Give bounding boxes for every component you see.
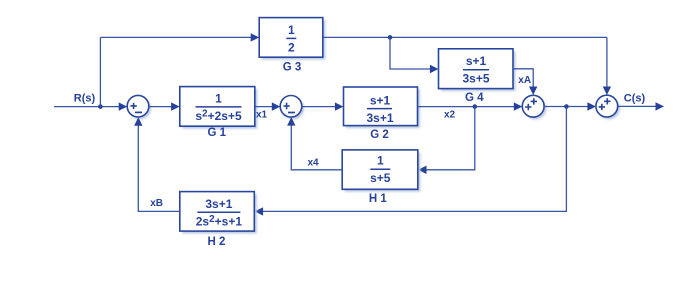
block G2 shadow [346, 90, 420, 129]
svg-text:R(s): R(s) [74, 93, 96, 105]
svg-text:G 4: G 4 [465, 92, 484, 104]
svg-text:s+5: s+5 [370, 171, 391, 185]
arrowhead up into summer S1 [134, 117, 142, 126]
label H 2 [208, 236, 226, 248]
label xB [150, 198, 163, 209]
svg-text:G 2: G 2 [370, 129, 389, 141]
svg-text:2: 2 [288, 40, 295, 54]
svg-text:2s2+s+1: 2s2+s+1 [196, 214, 243, 229]
block G3 [259, 18, 323, 58]
block G4 [439, 49, 514, 89]
svg-text:1: 1 [377, 154, 384, 168]
wire: G3 output along top to far right [323, 36, 607, 38]
label G 1 [208, 127, 227, 139]
svg-text:1: 1 [288, 23, 295, 37]
arrowhead left into H1 [418, 166, 427, 174]
wire: H2 output to S1 bottom [138, 125, 180, 211]
label G 4 [465, 92, 484, 104]
node: top line tap junction [388, 35, 393, 40]
label G 2 [370, 129, 389, 141]
svg-text:s+1: s+1 [370, 94, 391, 108]
arrowhead down into summer S4 [603, 87, 611, 96]
svg-text:G 3: G 3 [283, 62, 302, 74]
summer S4 shadow [598, 98, 620, 120]
arrowhead into G2 [335, 102, 344, 110]
svg-text:x1: x1 [256, 110, 268, 121]
label xA [518, 75, 531, 86]
summer S3 shadow [525, 98, 547, 120]
arrowhead down into summer S3 [529, 87, 537, 96]
summing junction S3 [522, 95, 544, 117]
label x1 [256, 110, 268, 121]
arrowhead up into summer S2 [287, 117, 295, 126]
arrowhead into G4 [430, 65, 439, 73]
label H 1 [369, 193, 388, 205]
wire: G1 to summer S2 [255, 106, 272, 108]
svg-text:G 1: G 1 [208, 127, 227, 139]
arrowhead into summer S2 [272, 102, 281, 110]
wire: tap drop to G4 input [390, 37, 430, 69]
summing junction S1 [127, 95, 149, 117]
block H2 [180, 192, 255, 232]
block G1 shadow [182, 89, 257, 129]
label C(s) [624, 93, 646, 105]
wire: R(s) input line [54, 106, 120, 108]
wire: top line drop into summer S4 [606, 37, 608, 87]
label x4 [307, 157, 319, 168]
wire: branch riser up to top path [99, 37, 101, 106]
node: output feedback junction [564, 104, 569, 109]
block H2 shadow [182, 194, 256, 234]
wire: S2 to G2 [302, 106, 335, 108]
label R(s) [74, 93, 96, 105]
svg-text:H 2: H 2 [208, 236, 226, 248]
summing junction S2 [280, 96, 302, 118]
arrowhead into G3 [251, 33, 260, 41]
wire: H1 output to S2 bottom [291, 125, 342, 170]
summing junction S4 [596, 95, 618, 117]
arrowhead into summer S3 [514, 102, 523, 110]
svg-text:3s+1: 3s+1 [205, 197, 232, 211]
wire: x2 drop to H1 input [426, 107, 475, 170]
label G 3 [283, 62, 302, 74]
svg-text:xA: xA [518, 75, 531, 86]
wire: S4 output C(s) [618, 105, 656, 107]
arrowhead output [656, 102, 665, 110]
wire: G4 output to summer S3 top [513, 69, 533, 87]
block G2 [344, 87, 418, 126]
block H1 shadow [345, 152, 421, 191]
svg-text:3s+5: 3s+5 [462, 72, 489, 86]
svg-text:H 1: H 1 [369, 193, 388, 205]
svg-text:x4: x4 [307, 157, 319, 168]
label x2 [444, 110, 456, 121]
block G1 [180, 87, 255, 127]
node: x2 branch junction [473, 104, 478, 109]
wire: S1 to G1 [149, 106, 172, 108]
wire: top path into G3 [100, 36, 251, 38]
block H1 [342, 150, 418, 189]
arrowhead left into H2 [255, 207, 264, 215]
svg-text:C(s): C(s) [624, 93, 646, 105]
arrowhead into summer S4 [587, 102, 596, 110]
svg-text:x2: x2 [444, 110, 456, 121]
block G4 shadow [441, 51, 516, 91]
arrowhead into G1 [171, 102, 180, 110]
svg-text:3s+1: 3s+1 [366, 111, 393, 125]
svg-text:1: 1 [215, 91, 222, 105]
svg-text:xB: xB [150, 198, 163, 209]
wire: feedback node drop to H2 input [263, 107, 566, 212]
summer S1 shadow [130, 98, 152, 120]
wire: S3 to S4 [544, 106, 587, 108]
summer S2 shadow [283, 98, 305, 120]
node: input branch junction [98, 104, 103, 109]
wire: G2 to summer S3 [418, 106, 515, 108]
arrowhead into summer S1 [119, 102, 128, 110]
svg-text:s+1: s+1 [466, 54, 487, 68]
block G3 shadow [262, 20, 326, 60]
